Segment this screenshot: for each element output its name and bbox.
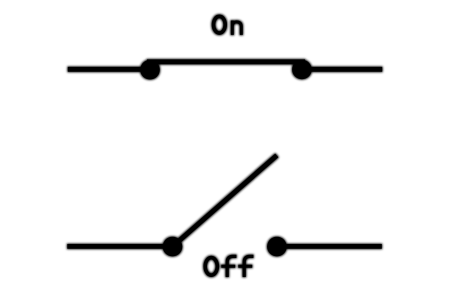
switch SW1 lever (closed bar across contacts) bbox=[147, 59, 305, 64]
node contact dot (Off switch, right terminal) bbox=[267, 237, 287, 257]
wire W2 (top-right lead of On switch) bbox=[302, 67, 382, 72]
node contact dot (On switch, left terminal) bbox=[140, 60, 160, 80]
wire W4 (bottom-right lead of Off switch) bbox=[277, 244, 382, 249]
wire W1 (top-left lead of On switch) bbox=[68, 67, 151, 72]
label "Off" (open switch state) bbox=[205, 256, 253, 277]
label "On" (closed switch state) bbox=[214, 16, 242, 35]
node contact dot (Off switch, left terminal) bbox=[163, 237, 183, 257]
node contact dot (On switch, right terminal) bbox=[292, 60, 312, 80]
switch SW2 lever (open, raised diagonal arm) bbox=[173, 155, 277, 246]
wire W3 (bottom-left lead of Off switch) bbox=[67, 244, 174, 249]
